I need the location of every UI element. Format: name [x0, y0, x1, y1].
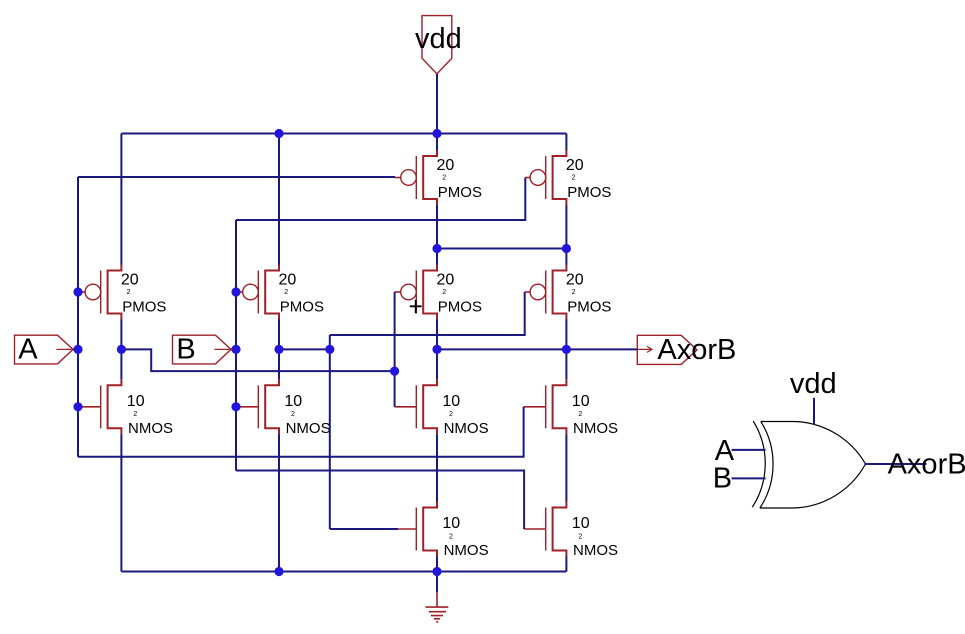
svg-text:PMOS: PMOS: [567, 298, 611, 315]
node junction A at NMOS1 gate: [73, 402, 82, 411]
svg-text:10: 10: [442, 515, 460, 532]
transistor PMOS4 gate B: [530, 150, 611, 205]
wire node Bbar drain link: [278, 320, 280, 380]
transistor PMOS3 gate A: [401, 150, 482, 205]
gate stub NMOS6: [524, 528, 546, 530]
svg-text:A: A: [18, 334, 38, 366]
transistor NMOS3 gate Abar: [416, 379, 488, 437]
wire net B to PMOS4 gate: [236, 178, 525, 221]
wire node B vertical: [235, 220, 237, 471]
transistor PMOS2 inverter-B pull-up: [243, 265, 324, 320]
wire PMOS1 source to rail: [120, 134, 122, 265]
wire PMOS3 source to rail: [436, 134, 438, 151]
label XOR input B: [713, 463, 732, 495]
svg-text:vdd: vdd: [790, 368, 837, 400]
svg-text:20: 20: [566, 271, 584, 288]
svg-text:2: 2: [442, 174, 446, 181]
svg-text:NMOS: NMOS: [444, 542, 489, 559]
svg-text:20: 20: [566, 157, 584, 174]
gate stub NMOS2: [237, 406, 258, 408]
svg-text:20: 20: [121, 271, 139, 288]
svg-text:PMOS: PMOS: [567, 184, 611, 201]
wire net A to NMOS4 gate: [78, 407, 524, 457]
transistor NMOS2 inverter-B pull-down: [258, 379, 330, 437]
svg-text:AxorB: AxorB: [657, 334, 736, 366]
wire net Bbar to PMOS6 gate: [330, 292, 525, 335]
input port B flag: [173, 334, 235, 366]
wire net Abar jog: [121, 349, 394, 371]
XOR gate symbol U1: [752, 421, 865, 508]
svg-text:20: 20: [279, 271, 297, 288]
node junction B at NMOS2 gate: [231, 402, 240, 411]
node junction A at PMOS1 gate: [73, 287, 82, 296]
wire XOR input B: [732, 477, 766, 479]
svg-text:2: 2: [127, 289, 131, 296]
svg-text:2: 2: [442, 289, 446, 296]
node junction Abar at drain column: [117, 345, 126, 354]
transistor NMOS6 gate B: [546, 502, 618, 560]
gate stub NMOS5: [398, 528, 416, 530]
transistor PMOS6 gate Bbar: [530, 265, 611, 320]
wire net Bbar link: [279, 348, 330, 350]
svg-text:10: 10: [572, 393, 590, 410]
node junction Abar tee: [390, 367, 399, 376]
svg-text:20: 20: [437, 157, 455, 174]
node junction ground rail at NMOS2: [274, 567, 283, 576]
svg-text:PMOS: PMOS: [122, 298, 166, 315]
gate stub PMOS6: [525, 291, 530, 293]
node junction Bbar branch: [325, 345, 334, 354]
wire PMOS6 drain to output: [565, 320, 567, 350]
wire vdd rail: [121, 133, 566, 135]
svg-text:10: 10: [442, 393, 460, 410]
wire PMOS5 source to N1: [436, 249, 438, 265]
wire NMOS4 to NMOS6: [565, 434, 567, 501]
svg-text:B: B: [713, 463, 732, 495]
svg-text:10: 10: [127, 393, 145, 410]
transistor NMOS4 gate A: [546, 379, 618, 437]
wire PMOS4 source to rail: [565, 134, 567, 151]
label XOR input A: [715, 435, 735, 467]
svg-text:2: 2: [449, 411, 453, 418]
wire NMOS1 source to ground rail: [120, 434, 122, 571]
gate stub NMOS1: [80, 406, 101, 408]
gate stub PMOS4: [525, 177, 530, 179]
wire net B to NMOS6 gate: [236, 471, 524, 530]
wire PMOS3 drain to N1: [436, 205, 438, 249]
wire node N1 mid rail: [437, 248, 566, 250]
svg-text:PMOS: PMOS: [280, 298, 324, 315]
svg-text:NMOS: NMOS: [573, 542, 618, 559]
node junction Bbar at drain column: [274, 345, 283, 354]
wire XOR vdd stub: [813, 398, 815, 425]
transistor PMOS5 gate Abar: [401, 265, 482, 320]
wire net Abar to PMOS5 and NMOS3 gates: [394, 292, 396, 407]
node junction N1 right: [562, 244, 571, 253]
svg-text:10: 10: [284, 393, 302, 410]
gate stub PMOS2: [237, 291, 243, 293]
wire ground rail: [121, 571, 566, 573]
svg-text:2: 2: [284, 289, 288, 296]
wire ground rail to ground symbol: [436, 572, 438, 593]
label XOR output AxorB: [888, 449, 965, 481]
wire output row to AxorB port: [437, 348, 637, 350]
svg-text:2: 2: [449, 533, 453, 540]
svg-text:2: 2: [572, 174, 576, 181]
gate stub PMOS3: [395, 177, 401, 179]
label XOR vdd: [790, 368, 837, 400]
wire net Bbar vertical: [329, 335, 331, 529]
svg-text:PMOS: PMOS: [438, 184, 482, 201]
gate stub NMOS3: [395, 406, 417, 408]
output port AxorB flag: [637, 334, 736, 366]
node junction output left: [432, 345, 441, 354]
wire NMOS3 drain to output: [436, 349, 438, 379]
gate stub PMOS1: [79, 291, 85, 293]
svg-text:PMOS: PMOS: [438, 298, 482, 315]
node junction A port: [73, 345, 82, 354]
gate stub NMOS4: [524, 406, 546, 408]
svg-text:NMOS: NMOS: [286, 420, 331, 437]
svg-text:vdd: vdd: [415, 23, 462, 55]
wire node Abar drain link: [120, 320, 122, 380]
wire node A vertical: [77, 177, 79, 457]
svg-text:NMOS: NMOS: [573, 420, 618, 437]
svg-text:NMOS: NMOS: [128, 420, 173, 437]
gate stub PMOS5: [395, 291, 401, 293]
node junction ground rail at ground: [432, 567, 441, 576]
wire PMOS2 source to rail: [278, 134, 280, 265]
wire NMOS3 to NMOS5: [436, 434, 438, 501]
svg-text:2: 2: [291, 411, 295, 418]
svg-text:2: 2: [578, 533, 582, 540]
wire NMOS4 drain to output: [565, 349, 567, 379]
transistor NMOS5 gate Bbar: [416, 502, 488, 560]
ground symbol: [426, 592, 449, 622]
wire PMOS4 drain to N1: [565, 205, 567, 249]
node junction N1 left: [432, 244, 441, 253]
svg-text:10: 10: [572, 515, 590, 532]
wire PMOS5 drain to output: [436, 320, 438, 350]
transistor PMOS1 inverter-A pull-up: [85, 265, 166, 320]
wire NMOS5 source to ground rail: [436, 557, 438, 572]
svg-text:B: B: [176, 334, 195, 366]
vdd power port symbol: [415, 16, 462, 74]
wire vdd port to rail: [436, 74, 438, 134]
transistor NMOS1 inverter-A pull-down: [101, 379, 173, 437]
svg-text:2: 2: [578, 411, 582, 418]
wire net A to PMOS3 gate: [78, 176, 395, 178]
svg-text:NMOS: NMOS: [444, 420, 489, 437]
wire NMOS6 source to ground rail: [565, 557, 567, 572]
svg-text:2: 2: [572, 289, 576, 296]
svg-text:AxorB: AxorB: [888, 449, 965, 481]
svg-text:20: 20: [437, 271, 455, 288]
svg-text:2: 2: [133, 411, 137, 418]
wire net Bbar to NMOS5 gate: [330, 528, 398, 530]
node junction B at PMOS2 gate: [231, 287, 240, 296]
node junction B port: [231, 345, 240, 354]
wire PMOS6 source to N1: [565, 249, 567, 265]
node junction vdd rail at PMOS2: [274, 129, 283, 138]
wire NMOS2 source to ground rail: [278, 434, 280, 571]
wire XOR output: [866, 463, 927, 465]
input port A flag: [15, 334, 77, 366]
wire XOR input A: [732, 449, 766, 451]
node junction vdd rail at vdd port: [432, 129, 441, 138]
cell center mark: [410, 300, 422, 314]
node junction output right: [562, 345, 571, 354]
